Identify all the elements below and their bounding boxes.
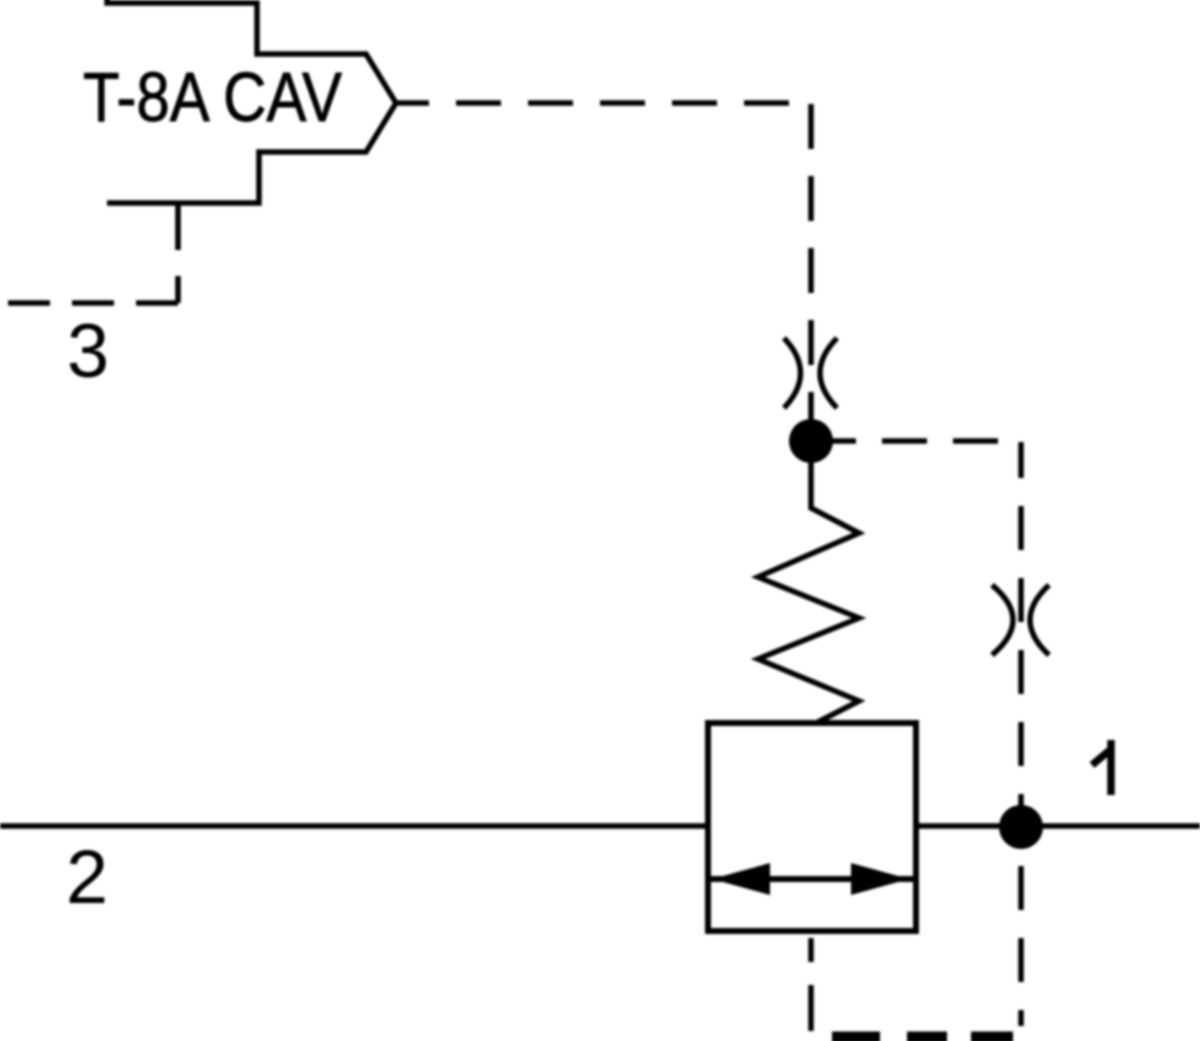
svg-text:T-8A CAV: T-8A CAV	[83, 58, 342, 136]
wire pilot dashed horizontal from callout tip	[398, 100, 811, 106]
valve arrow shaft	[708, 876, 916, 882]
node A junction	[789, 419, 833, 463]
node 1 junction	[999, 805, 1043, 849]
svg-text:3: 3	[67, 309, 109, 394]
orifice restriction (upper)	[784, 338, 837, 408]
svg-text:2: 2	[66, 835, 108, 920]
valve arrowhead left	[712, 863, 770, 895]
wire dashed right branch vertical	[1018, 442, 1024, 1026]
wire port 3 stub (dashed vertical)	[175, 203, 181, 303]
wire port 1 main line right	[916, 823, 1200, 829]
wire dashed bottom connecting branch	[832, 1032, 1013, 1041]
wire port 2 main line left	[0, 823, 708, 829]
wire dashed node A to right corner	[811, 438, 1021, 444]
wire port 3 (dashed to left edge)	[0, 300, 178, 306]
spring	[758, 462, 859, 722]
valve arrowhead right	[851, 863, 909, 895]
orifice restriction (right branch)	[992, 585, 1049, 655]
wire pilot dashed vertical to node A	[808, 104, 814, 441]
valve body box	[708, 723, 916, 931]
cavity callout outline T-8A CAV	[107, 0, 396, 203]
wire dashed below valve to tank (dash 2)	[808, 985, 814, 1031]
wire dashed below valve to tank (dash 1)	[808, 938, 814, 962]
label 1	[1092, 740, 1111, 795]
